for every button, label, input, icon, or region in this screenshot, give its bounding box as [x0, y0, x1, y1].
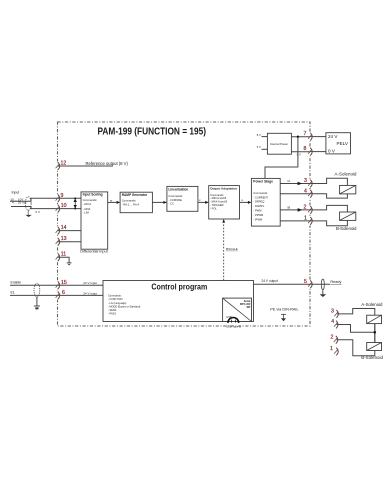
svg-text:15: 15 — [61, 280, 67, 286]
svg-text:8 V: 8 V — [257, 133, 261, 137]
svg-text:10: 10 — [61, 203, 67, 209]
svg-text:Internal Power: Internal Power — [270, 142, 288, 146]
svg-text:- PPWM: - PPWM — [253, 213, 264, 217]
svg-text:- TRIGGER: - TRIGGER — [210, 203, 223, 207]
svg-text:14: 14 — [61, 225, 67, 231]
svg-text:IA: IA — [288, 179, 291, 183]
svg-text:- LIM: - LIM — [83, 211, 90, 215]
svg-text:PELV: PELV — [337, 141, 349, 146]
svg-text:MSCALE: MSCALE — [226, 247, 238, 251]
svg-text:2: 2 — [304, 204, 307, 210]
svg-text:A-Solenoid: A-Solenoid — [335, 171, 358, 176]
svg-text:- AIN:A: - AIN:A — [83, 202, 92, 206]
svg-text:11: 11 — [61, 252, 66, 258]
svg-text:USB Type B: USB Type B — [226, 324, 241, 328]
svg-text:USB: USB — [226, 315, 232, 319]
svg-text:B-Solenoid: B-Solenoid — [361, 355, 383, 360]
svg-text:- AINA: - AINA — [83, 207, 91, 211]
svg-text:Enable: Enable — [11, 280, 22, 284]
svg-text:Input Scaling: Input Scaling — [83, 193, 103, 197]
svg-text:24 V: 24 V — [328, 134, 338, 139]
svg-text:A-Solenoid: A-Solenoid — [361, 302, 383, 307]
svg-text:1: 1 — [330, 346, 333, 352]
svg-text:7: 7 — [304, 131, 307, 137]
svg-text:RAMP Generator: RAMP Generator — [122, 193, 148, 197]
svg-text:0 V: 0 V — [297, 152, 301, 156]
svg-text:Commands:: Commands: — [253, 191, 268, 195]
svg-text:13: 13 — [61, 236, 67, 242]
svg-text:1: 1 — [304, 215, 307, 221]
svg-text:Differential input: Differential input — [80, 250, 108, 254]
svg-text:2: 2 — [331, 334, 334, 340]
svg-text:0 V: 0 V — [328, 149, 336, 154]
svg-text:12: 12 — [61, 161, 67, 167]
svg-text:- MAX:A and B: - MAX:A and B — [210, 200, 227, 204]
svg-text:- MIN:A and B: - MIN:A and B — [210, 196, 226, 200]
svg-text:- DAMPL: - DAMPL — [253, 204, 264, 208]
svg-text:- DFREQ: - DFREQ — [253, 200, 264, 204]
svg-text:3: 3 — [304, 178, 307, 184]
svg-text:5 V: 5 V — [257, 145, 261, 149]
svg-text:- CC: - CC — [168, 201, 174, 205]
svg-text:Ready: Ready — [330, 280, 341, 284]
svg-text:- LG (Language): - LG (Language) — [108, 302, 127, 305]
svg-text:Commands:: Commands: — [122, 199, 137, 203]
svg-text:24 V output: 24 V output — [262, 279, 278, 283]
svg-text:Output Adaptation: Output Adaptation — [210, 186, 237, 190]
svg-text:IB: IB — [288, 206, 291, 210]
svg-text:- CURRENT: - CURRENT — [253, 195, 268, 199]
svg-text:4: 4 — [304, 188, 307, 194]
svg-text:E1: E1 — [11, 291, 15, 295]
svg-text:8: 8 — [304, 146, 307, 152]
svg-text:Power Stage: Power Stage — [253, 180, 273, 184]
svg-text:Commands:: Commands: — [108, 294, 122, 297]
svg-text:PE via DIN-RAIL: PE via DIN-RAIL — [270, 307, 298, 311]
svg-text:5: 5 — [304, 279, 307, 285]
svg-text:Commands:: Commands: — [83, 198, 98, 202]
svg-text:9: 9 — [61, 193, 64, 199]
svg-text:- FUNCTION: - FUNCTION — [108, 298, 123, 301]
svg-text:Reference output (8 V): Reference output (8 V) — [86, 161, 129, 166]
svg-text:- PWM: - PWM — [253, 209, 262, 213]
svg-text:- PASS: - PASS — [108, 312, 116, 315]
svg-text:6: 6 — [62, 290, 65, 296]
svg-text:PAM-199 (FUNCTION = 195): PAM-199 (FUNCTION = 195) — [98, 126, 207, 137]
svg-text:24 V input: 24 V input — [83, 291, 97, 295]
svg-text:4: 4 — [331, 319, 334, 325]
svg-text:Control program: Control program — [151, 282, 207, 291]
svg-text:Commands:: Commands: — [168, 194, 183, 198]
svg-text:3: 3 — [331, 308, 334, 314]
svg-text:0 V: 0 V — [36, 210, 41, 214]
svg-text:- IPWM: - IPWM — [253, 217, 263, 221]
svg-text:4 ... 20 mA: 4 ... 20 mA — [12, 201, 27, 205]
svg-text:- CCMODE: - CCMODE — [168, 198, 182, 202]
svg-text:B-Solenoid: B-Solenoid — [336, 226, 357, 231]
svg-text:- RA:1 ... RA:4: - RA:1 ... RA:4 — [122, 203, 140, 207]
svg-text:Input: Input — [12, 191, 20, 195]
svg-text:- POL: - POL — [210, 206, 217, 210]
svg-text:24 V input: 24 V input — [83, 281, 97, 285]
svg-text:Linearisation: Linearisation — [168, 188, 188, 192]
